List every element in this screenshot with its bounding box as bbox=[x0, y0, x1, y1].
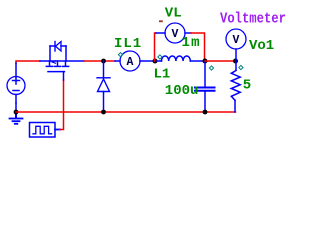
node: inductor/capacitor junction bbox=[203, 59, 208, 64]
capacitor C1 bbox=[195, 61, 215, 112]
pulse gating source VGS rectangle bbox=[30, 123, 61, 138]
svg-text:IL1: IL1 bbox=[114, 36, 142, 52]
transistor Q1 (MOSFET with body diode, drawn horizontally) bbox=[40, 42, 84, 81]
ammeter polarity marker bbox=[118, 53, 122, 57]
wire: VL left lead down to node bbox=[155, 33, 157, 61]
resistor polarity marker bbox=[239, 65, 243, 69]
voltmeter VL bbox=[156, 23, 191, 43]
svg-text:A: A bbox=[127, 56, 134, 69]
voltage source VDC bbox=[7, 77, 25, 104]
node: diode top junction bbox=[101, 59, 106, 64]
node: load top junction bbox=[233, 59, 238, 64]
svg-text:V: V bbox=[172, 28, 179, 41]
voltmeter VL polarity dash bbox=[159, 20, 163, 22]
svg-text:V: V bbox=[233, 34, 240, 47]
(pin continues) bbox=[13, 80, 20, 82]
node: junction dot at source/ground on bottom rail bbox=[14, 110, 19, 115]
wire: inductor node to load node bbox=[205, 60, 236, 62]
inductor polarity marker bbox=[158, 55, 162, 59]
svg-text:VL: VL bbox=[165, 6, 182, 22]
svg-text:L1: L1 bbox=[154, 67, 171, 83]
svg-text:100u: 100u bbox=[165, 83, 199, 99]
svg-text:5: 5 bbox=[243, 78, 251, 94]
svg-text:Voltmeter: Voltmeter bbox=[220, 12, 286, 28]
svg-text:Vo1: Vo1 bbox=[249, 38, 274, 54]
resistor R load 5 ohm bbox=[231, 61, 240, 112]
wire: VL right lead down to inductor output node bbox=[191, 33, 205, 61]
inductor L1 bbox=[157, 56, 204, 61]
wire: pulse source output to MOSFET gate bbox=[60, 80, 64, 130]
capacitor polarity marker bbox=[209, 66, 213, 70]
voltmeter Vo1 (voltage probe) bbox=[226, 29, 246, 61]
wire: MOSFET source to diode node bbox=[84, 60, 115, 62]
node: diode bottom junction bbox=[101, 110, 106, 115]
node: capacitor bottom junction bbox=[203, 110, 208, 115]
wire: bottom rail bbox=[16, 111, 236, 113]
wire: source bottom to ground rail bbox=[15, 103, 17, 112]
ground bbox=[10, 112, 23, 124]
wire: top rail from source to MOSFET drain bbox=[16, 61, 40, 64]
diode D1 (freewheeling, pointing up) bbox=[97, 61, 110, 112]
node: junction after ammeter / VL tap bbox=[153, 59, 158, 64]
ammeter IL1 bbox=[115, 51, 153, 71]
svg-text:1m: 1m bbox=[182, 35, 201, 51]
